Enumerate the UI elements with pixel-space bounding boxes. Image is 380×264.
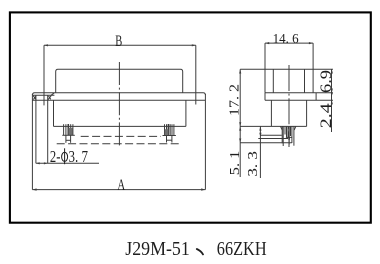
jackpost right: screw body lines — [163, 124, 176, 143]
flange top edge (left view) — [32, 93, 205, 95]
flange bottom edge (left view) — [32, 99, 205, 101]
6.9 arrow down — [331, 89, 333, 93]
pin medium right — [291, 126, 293, 143]
5.1 arrow down — [239, 139, 241, 143]
flange left edge + A extension line left — [31, 94, 33, 190]
svg-text:14. 6: 14. 6 — [273, 32, 299, 47]
body bottom edge (side view) + 17.2/5.1/3.3 ext left — [240, 125, 306, 127]
body right edge (side view) — [306, 100, 308, 126]
3.3 arrow down — [259, 133, 261, 137]
mounting hole right edge + extension to 2-phi3.7 dim — [47, 95, 49, 163]
shell right side + 14.6 extension — [312, 43, 314, 93]
centerline (side view, dash-dot) — [288, 65, 290, 147]
dimension 14.6 line — [265, 42, 313, 44]
insert shell (left view top rectangle) — [56, 69, 183, 92]
pin medium center-right — [288, 126, 290, 144]
svg-text:2-: 2- — [50, 147, 61, 166]
2.4 arrow mark below flange top ext — [331, 93, 333, 96]
pin fan diagonals — [280, 126, 296, 130]
svg-text:3. 7: 3. 7 — [69, 147, 89, 166]
jackpost left stem — [65, 135, 67, 143]
dimension A arrow right — [201, 188, 205, 190]
mounting hole left edge + extension to 2-phi3.7 dim — [35, 95, 37, 163]
dimension 6.9 + 2.4 line (shared vertical) — [331, 69, 333, 132]
3.3 extension line — [260, 134, 281, 136]
svg-text:17. 2: 17. 2 — [228, 84, 243, 116]
body left edge (side view) — [270, 100, 272, 126]
boss chamfer diagonal left — [33, 96, 36, 100]
6.9 arrow up — [331, 69, 333, 73]
pin short 3 (dark) — [287, 126, 289, 138]
svg-text:2.4: 2.4 — [318, 103, 335, 128]
jackpost right knurl hatch — [165, 129, 169, 135]
jackpost right washer — [163, 135, 176, 137]
dimension 14.6 arrow left — [265, 42, 269, 44]
phi symbol — [62, 152, 68, 161]
hole boss line (left end of flange) — [33, 94, 55, 96]
jackpost left: screw body lines — [62, 124, 75, 143]
shell inner line right — [304, 69, 306, 92]
dimension B arrow left — [44, 44, 48, 46]
jackpost left washer — [62, 134, 75, 136]
svg-text:3. 3: 3. 3 — [246, 151, 261, 177]
dimension 3.3 line — [259, 126, 261, 178]
svg-text:6.9: 6.9 — [318, 70, 335, 93]
17.2 arrow down / 5.1 arrow up — [239, 122, 241, 126]
dimension A arrow left — [32, 188, 36, 190]
jackpost left knurl hatch — [69, 128, 73, 135]
pin dark blob at centerline crossing — [288, 137, 290, 139]
dimension A line — [32, 189, 205, 191]
border frame — [10, 12, 371, 222]
dimension 17.2 + 5.1 line (shared vertical) — [239, 69, 241, 177]
flange right edge + A extension line right — [204, 94, 206, 190]
intermediate extension line — [258, 138, 288, 140]
hidden dashed line 1 (left view) — [81, 135, 161, 137]
shell top edge + 17.2 ext + 6.9 ext (one line) — [240, 68, 333, 70]
shell left side + 14.6 extension — [264, 43, 266, 93]
svg-text:J29M-51: J29M-51 — [125, 238, 190, 260]
dimension 2-phi3.7 arrow left — [36, 162, 40, 164]
pin medium left — [281, 126, 283, 143]
jackpost right stem — [166, 136, 168, 143]
svg-text:66ZKH: 66ZKH — [217, 238, 267, 260]
flange right edge (side view) — [315, 93, 317, 101]
17.2 arrow up — [239, 69, 241, 73]
B extension line right (hole centerline) — [195, 45, 197, 104]
B extension line left (hole centerline) — [43, 45, 45, 105]
hidden dashed line 2 (left view) — [57, 143, 182, 145]
pin shoulder tick — [286, 136, 292, 138]
5.1 extension line (pin tips level) — [240, 142, 292, 144]
boss chamfer diagonal right — [48, 93, 54, 100]
pin long right — [293, 126, 295, 146]
svg-text:A: A — [117, 177, 125, 194]
svg-text:5. 1: 5. 1 — [228, 151, 243, 176]
dimension 14.6 arrow right — [309, 42, 313, 44]
2.4 arrow up (from below) — [331, 100, 333, 104]
svg-text:B: B — [115, 33, 122, 50]
centerline (left view, dash-dot) — [118, 62, 120, 147]
flange top edge (side view) + 6.9/2.4 ext right — [265, 92, 333, 94]
dimension B line — [44, 44, 196, 46]
flange bottom edge (side view) + 2.4 ext right — [265, 99, 333, 101]
pin short 1 — [284, 126, 286, 134]
shell inner line left — [272, 69, 274, 92]
pin long left — [282, 126, 284, 146]
pin short 2 — [286, 126, 288, 137]
body rectangle (left view, below flange) — [54, 100, 186, 126]
dimension B arrow right — [192, 44, 196, 46]
caption ideographic comma — [197, 249, 203, 254]
dimension 2-phi3.7 arrow right — [44, 162, 48, 164]
flange left edge (side view) — [264, 93, 266, 101]
dimension 2-phi3.7 line — [36, 162, 99, 164]
pin short 4 — [290, 126, 292, 136]
3.3 arrow up — [259, 126, 261, 130]
